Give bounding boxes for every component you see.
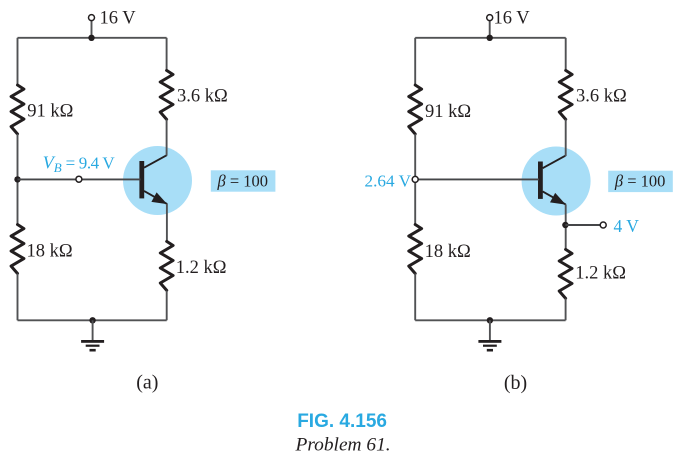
wire: top rail (a) (18, 37, 167, 39)
transistor Q1 (b) (522, 147, 591, 216)
svg-text:16 V: 16 V (494, 9, 531, 29)
svg-text:3.6 kΩ: 3.6 kΩ (177, 87, 228, 107)
junction: ground node dot (a) (89, 317, 95, 323)
terminal: 16 V supply (b) (487, 15, 493, 21)
label: beta = 100 box (a) (211, 170, 276, 191)
wire: base wire (a) (18, 178, 141, 180)
svg-text:β = 100: β = 100 (614, 172, 666, 191)
wire: bottom rail (b) (415, 319, 565, 321)
ground (a) (81, 320, 104, 351)
junction: base node dot on left rail (a) (14, 176, 20, 182)
junction: supply node dot (b) (487, 35, 493, 41)
wire: collector lead (b) (565, 119, 567, 156)
wire: base wire (b) (415, 178, 539, 180)
resistor R2 18 kOhm (a) (11, 225, 24, 274)
resistor R1 91 kOhm (b) (409, 85, 422, 134)
wire: left rail middle (b) (414, 134, 416, 225)
svg-text:(a): (a) (136, 372, 158, 394)
wire: left rail upper (a) (17, 38, 19, 85)
svg-text:2.64 V: 2.64 V (365, 172, 412, 191)
wire: emitter lead (a) (166, 204, 168, 242)
svg-text:(b): (b) (504, 372, 527, 394)
node: base measurement point (b) (412, 176, 418, 182)
svg-text:18 kΩ: 18 kΩ (27, 242, 73, 262)
wire: emitter measurement stub (b) (565, 224, 600, 226)
svg-text:16 V: 16 V (100, 9, 137, 29)
resistor R2 18 kOhm (b) (409, 225, 422, 274)
svg-text:1.2 kΩ: 1.2 kΩ (575, 264, 626, 284)
wire: top rail (b) (415, 37, 566, 39)
transistor Q1 (a) (123, 146, 192, 215)
wire: right rail upper (a) (166, 38, 168, 71)
wire: right rail upper (b) (565, 38, 567, 71)
svg-text:β = 100: β = 100 (217, 171, 269, 190)
resistor RC 3.6 kOhm (a) (160, 70, 173, 119)
label: beta = 100 box (b) (608, 171, 673, 192)
junction: emitter node dot (b) (562, 222, 568, 228)
svg-text:1.2 kΩ: 1.2 kΩ (176, 258, 227, 278)
resistor R1 91 kOhm (a) (11, 85, 24, 134)
wire: left rail lower (b) (414, 274, 416, 321)
svg-text:18 kΩ: 18 kΩ (425, 242, 471, 262)
svg-text:Problem 61.: Problem 61. (295, 435, 391, 456)
wire: bottom rail (a) (18, 319, 167, 321)
node: VB measurement point (a) (76, 176, 82, 182)
svg-text:91 kΩ: 91 kΩ (27, 102, 73, 122)
wire: left rail middle (a) (17, 134, 19, 225)
resistor RE 1.2 kOhm (b) (559, 249, 572, 298)
ground (b) (478, 320, 501, 351)
wire: right rail lower (b) (565, 298, 567, 320)
svg-text:91 kΩ: 91 kΩ (425, 102, 471, 122)
junction: supply node dot (a) (88, 35, 94, 41)
wire: collector lead (a) (166, 119, 168, 155)
terminal: 16 V supply (a) (89, 15, 95, 21)
svg-text:3.6 kΩ: 3.6 kΩ (576, 87, 627, 107)
wire: left rail upper (b) (414, 38, 416, 85)
wire: right rail lower (a) (166, 291, 168, 321)
junction: ground node dot (b) (487, 317, 493, 323)
resistor RE 1.2 kOhm (a) (160, 241, 173, 290)
node: 4 V measurement point (b) (600, 222, 606, 228)
svg-text:FIG. 4.156: FIG. 4.156 (297, 411, 387, 432)
svg-text:4 V: 4 V (614, 216, 640, 236)
wire: emitter lead (b) (565, 204, 567, 249)
wire: supply stem (b) (489, 20, 491, 38)
wire: left rail lower (a) (17, 274, 19, 321)
wire: supply stem (a) (91, 20, 93, 38)
resistor RC 3.6 kOhm (b) (559, 70, 572, 119)
svg-text:VB = 9.4 V: VB = 9.4 V (43, 153, 116, 176)
